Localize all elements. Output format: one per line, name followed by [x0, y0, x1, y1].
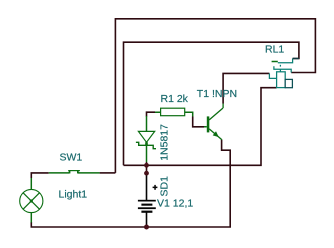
svg-text:1N5817: 1N5817: [159, 124, 171, 161]
svg-text:T1 !NPN: T1 !NPN: [197, 88, 237, 100]
svg-text:V1 12,1: V1 12,1: [157, 198, 193, 210]
svg-text:SD1: SD1: [159, 176, 171, 197]
svg-text:SW1: SW1: [60, 152, 83, 164]
svg-text:RL1: RL1: [265, 44, 284, 56]
svg-text:Light1: Light1: [59, 188, 88, 200]
svg-text:R1 2k: R1 2k: [161, 93, 189, 105]
